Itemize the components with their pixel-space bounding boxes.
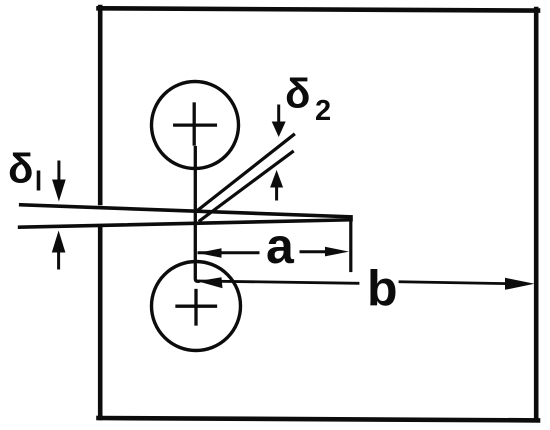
inclined strip upper line <box>198 135 294 210</box>
vertical centerline through crack plane <box>195 148 198 282</box>
specimen outline right edge <box>534 9 539 420</box>
top hole cross horizontal <box>175 123 216 126</box>
dimension b left arrowhead <box>198 277 223 288</box>
dimension a line right segment <box>301 250 327 253</box>
dimension b right arrowhead <box>505 278 535 290</box>
svg-text:δ: δ <box>8 145 33 192</box>
dimension b line left segment <box>200 281 358 283</box>
delta2 up arrow stem <box>275 186 278 199</box>
dimension a line left segment <box>199 251 258 254</box>
tick at crack tip for dimension a <box>349 218 352 271</box>
delta1 up arrow stem <box>57 250 60 268</box>
loading hole bottom circle <box>152 262 241 351</box>
delta2 down arrowhead <box>272 122 286 138</box>
inclined strip lower line <box>200 152 292 221</box>
dimension a left arrowhead <box>198 248 222 258</box>
specimen outline left edge upper segment <box>98 7 103 203</box>
bottom hole cross vertical <box>194 291 197 325</box>
specimen outline bottom edge <box>99 418 539 420</box>
delta2 up arrowhead <box>270 170 283 188</box>
svg-text:b: b <box>367 261 398 317</box>
specimen outline top edge <box>99 8 539 10</box>
svg-text:a: a <box>266 218 295 274</box>
delta1 up arrowhead <box>52 231 66 253</box>
svg-text:δ: δ <box>285 70 310 117</box>
delta1 down arrowhead <box>52 180 66 202</box>
crack upper flank line <box>21 205 351 217</box>
loading hole top circle <box>152 82 239 169</box>
label delta1 subscript stroke <box>37 171 41 191</box>
specimen outline left edge lower segment <box>98 229 103 419</box>
delta1 down arrow stem <box>57 162 60 182</box>
svg-text:2: 2 <box>315 95 331 127</box>
delta2 down arrow stem <box>277 106 280 124</box>
dimension a right arrowhead <box>325 247 349 257</box>
bottom hole cross horizontal <box>177 305 216 308</box>
dimension b line right segment <box>400 282 506 284</box>
top hole cross vertical <box>193 104 196 144</box>
crack lower flank line <box>20 220 351 227</box>
